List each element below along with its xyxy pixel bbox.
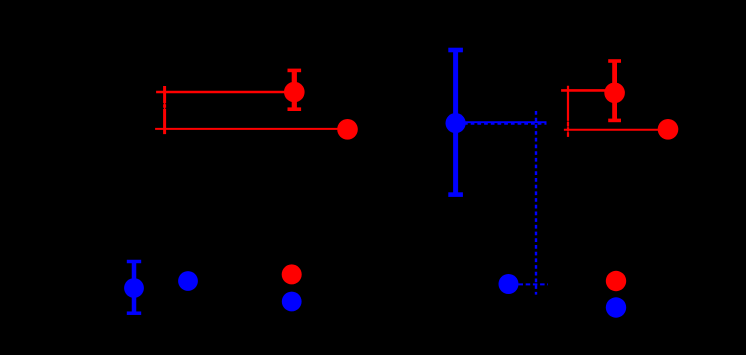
right red top horizontal line — [561, 89, 615, 92]
bottom-left pair blue marker — [282, 292, 302, 312]
lower blue marker — [499, 274, 519, 294]
left red error bar — [288, 70, 302, 109]
bottom-right pair red marker — [606, 271, 626, 291]
bottom-left blue plain marker — [178, 271, 198, 291]
blue dashed horizontal line (solid top layer) — [464, 121, 547, 123]
blue dashed vertical line — [535, 111, 537, 295]
bottom-right pair blue marker — [606, 297, 626, 317]
right red bracket vertical line — [567, 86, 569, 137]
big blue error bar — [448, 50, 463, 195]
left red bottom horizontal line — [155, 128, 347, 130]
left red bracket vertical line — [163, 86, 166, 134]
bottom-left pair red marker — [282, 264, 302, 284]
blue dashed horizontal line (dashed bottom layer) — [464, 123, 547, 125]
right red bottom horizontal line — [564, 129, 668, 131]
right red plain marker — [658, 119, 679, 140]
right red bracket centre thread — [567, 120, 569, 133]
right red error-bar marker — [604, 83, 625, 104]
left red top horizontal line — [156, 91, 294, 93]
left red bracket centre thread — [164, 103, 166, 110]
bottom-left blue error-bar marker — [124, 278, 144, 298]
left red plain marker — [337, 119, 358, 140]
bottom-left blue error bar — [127, 262, 141, 314]
lower blue short dashed line — [519, 283, 549, 285]
left red error-bar marker — [284, 82, 305, 103]
right red error bar — [608, 61, 621, 120]
big blue error-bar marker — [446, 113, 466, 133]
